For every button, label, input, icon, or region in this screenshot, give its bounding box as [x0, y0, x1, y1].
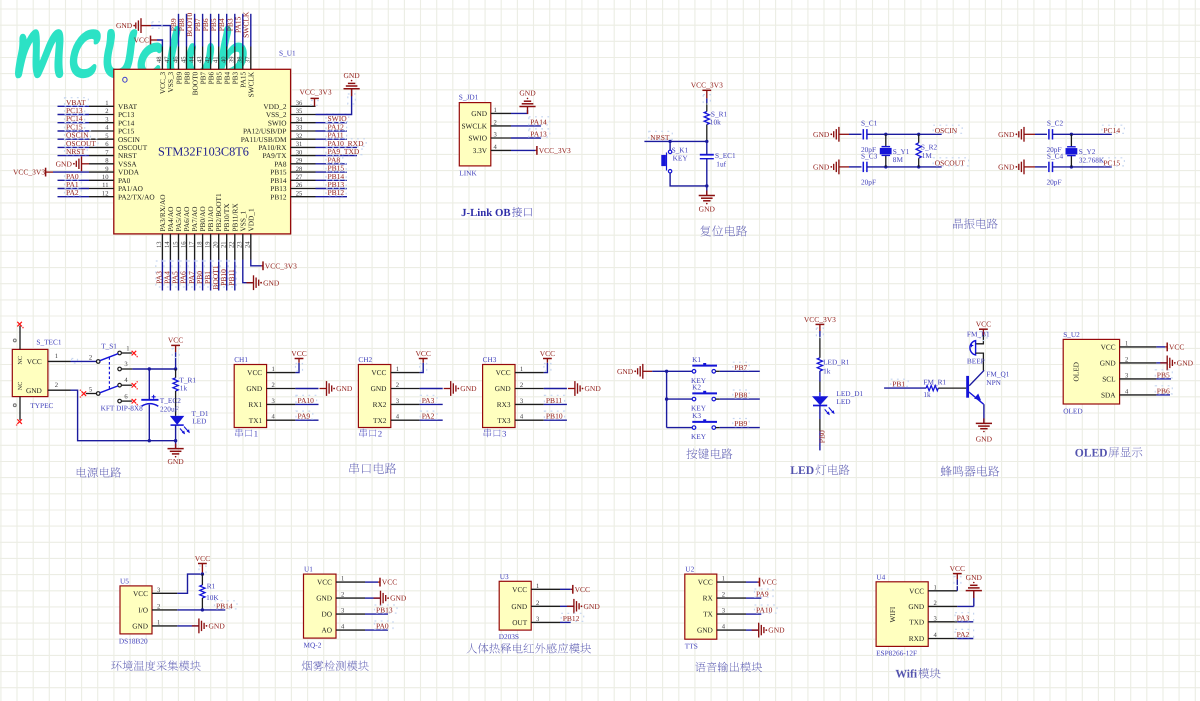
part name chuankou1: [235, 429, 252, 438]
wire net PB13: [316, 188, 348, 190]
svg-text:NRST: NRST: [650, 133, 670, 142]
wire OLED VCC: [1156, 346, 1165, 348]
svg-text:VCC: VCC: [247, 368, 262, 377]
svg-text:GND: GND: [167, 457, 184, 466]
wire net PC14: [58, 122, 90, 124]
svg-text:TX: TX: [703, 610, 713, 619]
svg-text:11: 11: [102, 182, 108, 189]
pin 24 VDD_1: [250, 234, 252, 260]
svg-text:RX: RX: [703, 594, 714, 603]
svg-text:GND: GND: [246, 384, 262, 393]
no-connect X pin1: [132, 351, 137, 356]
svg-text:2: 2: [396, 382, 399, 389]
pin 2 GND of CH2: [391, 388, 420, 390]
part name chuankou2: [360, 429, 377, 438]
svg-text:GND: GND: [998, 130, 1015, 139]
wire VCC down: [175, 345, 177, 352]
svg-text:1: 1: [1125, 340, 1128, 347]
title serial circuit: [349, 463, 396, 474]
node junction K2: [665, 397, 668, 400]
pin 1 VCC of CH1: [267, 372, 296, 374]
svg-text:2: 2: [722, 592, 725, 599]
wire net NRST: [58, 155, 90, 157]
ground GND at VSSA: [56, 156, 82, 171]
svg-text:K3: K3: [692, 411, 701, 420]
svg-text:2: 2: [89, 355, 92, 362]
svg-text:U2: U2: [685, 565, 694, 574]
pin 44 BOOT0: [194, 47, 196, 70]
svg-text:VCC: VCC: [133, 589, 148, 598]
resistor FM_R1 1k: [926, 386, 938, 391]
wire NRST to key: [669, 141, 671, 150]
svg-text:VCC: VCC: [291, 349, 306, 358]
pin 34 SWIO: [291, 122, 316, 124]
svg-text:VCC: VCC: [168, 336, 183, 345]
svg-text:LED: LED: [836, 397, 850, 406]
ground GND at U3: [567, 599, 600, 614]
ground GND at C3: [813, 160, 839, 175]
no-connect X pin6: [132, 399, 137, 404]
node junction bottom cap: [148, 439, 151, 442]
pin 4 SDA of S_U2: [1120, 394, 1157, 396]
power VCC at OLED: [1166, 343, 1168, 352]
svg-text:LED: LED: [790, 464, 814, 477]
svg-text:RX2: RX2: [373, 400, 387, 409]
svg-text:DS18B20: DS18B20: [119, 636, 148, 645]
wire net PA0: [365, 629, 388, 631]
wire VSSA pin8: [82, 163, 90, 165]
selection dashes LED stem: [816, 328, 823, 338]
no-connect X bottom: [17, 419, 22, 424]
decorative blue ellipse: [123, 77, 127, 82]
wire VCC to buzzer: [982, 329, 984, 335]
title key circuit: [686, 448, 732, 459]
wire CH3 GND: [544, 388, 567, 390]
title smoke module: [302, 661, 369, 671]
wire net PB12: [316, 196, 348, 198]
wire C2 to PC14: [1053, 133, 1112, 135]
svg-text:RXD: RXD: [909, 634, 924, 643]
pin 25 PB12: [291, 196, 316, 198]
gray dot bottom: [13, 404, 16, 407]
svg-text:VDD_1: VDD_1: [246, 208, 255, 231]
node junction rail top: [174, 367, 177, 370]
wire C1 to OSCIN: [867, 133, 942, 135]
wire LED to bottom: [175, 425, 177, 449]
svg-text:K2: K2: [692, 383, 701, 392]
title voice module: [695, 662, 762, 672]
wire U4 VCC up: [956, 579, 958, 591]
pin 15 PA5/AO: [178, 234, 180, 260]
wire U1 GND: [365, 597, 381, 599]
wire net PA1: [58, 188, 90, 190]
selection dashes VDD_2 stem: [311, 101, 318, 106]
pin 38 PA15: [242, 47, 244, 70]
wire net PA3: [161, 260, 163, 291]
svg-text:VCC: VCC: [1169, 343, 1184, 352]
svg-text:GND: GND: [511, 602, 527, 611]
wire net PB12: [560, 621, 571, 623]
svg-text:S_C4: S_C4: [1047, 152, 1064, 161]
pin 40 PB4: [226, 47, 228, 70]
capacitor S_C3 20pF: [862, 162, 864, 172]
no-connect X pin4: [132, 383, 137, 388]
svg-text:32: 32: [296, 133, 303, 140]
node junction cap branch: [148, 367, 151, 370]
wire CH1 GND: [295, 388, 318, 390]
svg-text:42: 42: [204, 56, 211, 63]
svg-text:NC: NC: [17, 382, 24, 391]
power VCC_3V3 at VDD_2: [311, 97, 319, 99]
pin 17 PA7/AO: [194, 234, 196, 260]
wire net PB11: [544, 403, 567, 405]
svg-text:GND: GND: [966, 573, 983, 582]
svg-text:26: 26: [296, 182, 303, 189]
pin 4 TX1 of CH1: [267, 419, 296, 421]
pin 2 PC13: [89, 114, 114, 116]
pin NC top of TEC1: [19, 326, 21, 350]
svg-text:1: 1: [396, 366, 399, 373]
svg-text:VCC: VCC: [382, 578, 397, 587]
svg-text:GND: GND: [263, 278, 280, 287]
svg-text:GND: GND: [56, 159, 73, 168]
power VCC buzzer: [979, 328, 988, 330]
svg-text:17: 17: [188, 241, 195, 248]
svg-text:27: 27: [296, 174, 303, 181]
wire CH1 VCC up: [295, 363, 299, 373]
selection dashes TEC VCC stem: [172, 349, 179, 358]
ground GND at VSS_1: [247, 275, 280, 290]
pin 30 PA9/TX: [291, 155, 316, 157]
wire net PA8: [316, 163, 348, 165]
wire K1 to net: [716, 370, 720, 372]
pin 27 PB14: [291, 179, 316, 181]
wire net PC15: [58, 130, 90, 132]
svg-text:TX2: TX2: [373, 416, 387, 425]
pin 2 SWCLK of S_JD1: [491, 125, 511, 127]
svg-text:20pF: 20pF: [861, 177, 876, 186]
svg-text:1k: 1k: [180, 384, 188, 393]
wire net PA14: [511, 125, 541, 127]
svg-text:VCC_3V3: VCC_3V3: [300, 88, 332, 97]
svg-text:VCC_3V3: VCC_3V3: [804, 315, 836, 324]
pin 3 TXD of U4: [928, 621, 957, 623]
svg-text:2: 2: [55, 382, 58, 389]
svg-text:T_S1: T_S1: [101, 341, 117, 350]
node junction NRST-key: [668, 140, 671, 143]
svg-text:S_C2: S_C2: [1047, 119, 1064, 128]
svg-text:OLED: OLED: [1075, 447, 1108, 460]
title power circuit: [77, 467, 121, 478]
selection dashes buzzer stem: [980, 332, 987, 341]
wire net PB6: [1156, 394, 1170, 396]
wire U1 VCC: [365, 581, 378, 583]
LED LED_D1: [812, 396, 828, 405]
wire net BOOT0: [194, 14, 196, 47]
svg-text:VCC: VCC: [134, 36, 149, 45]
wire net PB8: [186, 14, 188, 47]
svg-text:TX3: TX3: [497, 416, 511, 425]
wire bus to K2: [667, 398, 693, 400]
svg-text:SWIO: SWIO: [468, 134, 487, 143]
wire net PA2: [58, 196, 90, 198]
ground GND keys: [617, 364, 643, 379]
pin 31 PA10/RX: [291, 146, 316, 148]
svg-text:GND: GND: [1177, 359, 1194, 368]
power VCC_3V3 at VDD_1: [262, 261, 264, 270]
pin 2 GND of U1: [336, 597, 365, 599]
wire net PB7: [202, 14, 204, 47]
svg-text:VCC: VCC: [415, 349, 430, 358]
svg-text:D203S: D203S: [499, 632, 519, 641]
pin 10 PA0: [89, 179, 114, 181]
wire U2 VCC: [746, 581, 758, 583]
svg-text:GND: GND: [336, 384, 353, 393]
svg-text:16: 16: [180, 241, 187, 248]
svg-text:GND: GND: [495, 384, 511, 393]
svg-text:S_R2: S_R2: [921, 142, 938, 151]
pin 1 VCC of U4: [928, 590, 957, 592]
svg-text:GND: GND: [371, 384, 387, 393]
svg-text:U5: U5: [120, 577, 129, 586]
svg-text:GND: GND: [390, 594, 407, 603]
svg-text:1: 1: [55, 353, 58, 360]
wire net NRST: [644, 140, 706, 142]
capacitor T_EC2 220uF: [148, 369, 150, 400]
svg-text:NRST: NRST: [66, 147, 86, 156]
sensor U1 body: [304, 574, 337, 638]
pin 1 VCC of CH2: [391, 372, 420, 374]
ground GND at U4: [973, 591, 975, 598]
wire net PB14: [316, 179, 348, 181]
pin 20 PB2/BOOT1: [218, 234, 220, 260]
svg-text:220uF: 220uF: [160, 404, 179, 413]
svg-text:SWCLK: SWCLK: [461, 122, 487, 131]
ground GND reset: [706, 191, 708, 196]
svg-text:LED: LED: [192, 416, 206, 425]
wire net PA10_RXD: [316, 146, 358, 148]
svg-text:3.3V: 3.3V: [473, 146, 488, 155]
ground GND power: [175, 444, 177, 449]
power VCC_3V3 at VDDA: [45, 168, 47, 177]
wire LED_D1 to PB0: [819, 406, 821, 420]
svg-text:GND: GND: [132, 622, 148, 631]
wire VCC_3V3 to LED_R1: [819, 324, 821, 331]
svg-text:20pF: 20pF: [1047, 177, 1062, 186]
svg-text:SWCLK: SWCLK: [241, 11, 250, 38]
power VCC at CH3: [543, 358, 552, 360]
wire net VBAT: [58, 105, 90, 107]
node junction NRST-cap: [705, 140, 708, 143]
svg-text:MQ-2: MQ-2: [304, 641, 322, 650]
svg-text:41: 41: [213, 56, 220, 63]
pin 3 RX1 of CH1: [267, 403, 296, 405]
svg-text:2: 2: [272, 382, 275, 389]
svg-text:GND: GND: [697, 626, 713, 635]
svg-text:RX1: RX1: [248, 400, 262, 409]
wire net PA2 wifi: [957, 638, 973, 640]
pin 41 PB5: [218, 47, 220, 70]
wire net PB11: [234, 260, 236, 291]
pin 2 GND of CH1: [267, 388, 296, 390]
wire net PB10: [544, 419, 567, 421]
crystal S_Y2 32.768K: [1070, 134, 1072, 147]
power VCC at U4: [953, 573, 962, 575]
svg-text:DO: DO: [321, 610, 332, 619]
title temperature module: [111, 660, 201, 671]
svg-text:VCC: VCC: [27, 357, 42, 366]
crystal S_Y1 8M: [885, 134, 887, 146]
pin 1 VCC of CH3: [515, 372, 544, 374]
pin 18 PB0/AO: [202, 234, 204, 260]
svg-text:1: 1: [341, 576, 344, 583]
resistor T_R1 1K: [173, 378, 178, 391]
pin 23 VSS_1: [242, 234, 244, 260]
power VCC at U2: [759, 578, 761, 587]
resistor S_R2 1M: [918, 134, 920, 143]
svg-text:VCC: VCC: [950, 564, 965, 573]
wire net PA11: [316, 138, 348, 140]
wire net PB5: [1156, 378, 1171, 380]
svg-text:WIFI: WIFI: [888, 606, 897, 622]
svg-text:VCC: VCC: [496, 368, 511, 377]
pin 11 PA1/AO: [89, 188, 114, 190]
svg-text:VCC: VCC: [512, 585, 527, 594]
svg-text:PA2/TX/AO: PA2/TX/AO: [118, 192, 155, 201]
svg-text:VCC: VCC: [761, 578, 776, 587]
pin 47 VSS_3: [169, 47, 171, 70]
wire net PA7: [194, 260, 196, 291]
svg-text:FM_R1: FM_R1: [923, 378, 946, 387]
switch pin 1: [118, 351, 122, 355]
wire net PA15: [242, 14, 244, 47]
ground GND at CH3: [568, 381, 601, 396]
svg-text:GND: GND: [460, 384, 477, 393]
wire VDD_2 to VCC_3V3: [314, 98, 316, 106]
wire CH3 VCC up: [544, 363, 548, 373]
svg-text:28: 28: [296, 166, 303, 173]
svg-text:NPN: NPN: [986, 378, 1001, 387]
pin 12 PA2/TX/AO: [89, 196, 114, 198]
wire net PB5: [218, 14, 220, 47]
switch link dashed: [108, 357, 110, 388]
svg-text:S_JD1: S_JD1: [459, 92, 479, 101]
pin 29 PA8: [291, 163, 316, 165]
node junction R2 top: [917, 133, 920, 136]
svg-text:8M: 8M: [893, 155, 904, 164]
svg-text:CH2: CH2: [358, 355, 372, 364]
wire net PB10: [226, 260, 228, 291]
title crystal circuit: [953, 218, 998, 229]
svg-text:10k: 10k: [710, 117, 721, 126]
module U4 body: [876, 582, 928, 647]
pin 2 GND of U3: [531, 605, 560, 607]
wire net PB1: [884, 387, 926, 389]
wire U3 VCC: [560, 588, 571, 590]
svg-text:1: 1: [254, 429, 258, 439]
svg-text:2: 2: [536, 600, 539, 607]
svg-text:KEY: KEY: [673, 153, 689, 162]
ground GND at CH2: [444, 381, 477, 396]
wire R1 to NRST node: [706, 125, 708, 142]
wire OLED GND: [1156, 362, 1167, 364]
wire net PA3 wifi: [957, 621, 973, 623]
wire U3 GND: [560, 605, 574, 607]
transistor FM_Q1 NPN: [966, 376, 969, 398]
pin 19 PB1/AO: [210, 234, 212, 260]
svg-text:2: 2: [378, 429, 382, 439]
svg-text:35: 35: [296, 108, 303, 115]
pin 1 GND of U5: [152, 625, 177, 627]
ground GND at C2: [998, 127, 1024, 142]
pin 43 PB7: [202, 47, 204, 70]
wire net PA5: [178, 260, 180, 291]
selection dashes U4 stem: [954, 577, 961, 586]
connector CH3 body: [483, 365, 515, 428]
node junction cap-key: [705, 184, 708, 187]
svg-text:25: 25: [296, 190, 303, 197]
ground GND buzzer: [983, 418, 985, 423]
svg-text:1: 1: [126, 346, 129, 353]
power VCC at CH2: [419, 358, 428, 360]
svg-text:32.768K: 32.768K: [1079, 155, 1105, 164]
LED T_D1: [170, 416, 184, 425]
wire buzzer to Q1 collector: [976, 353, 984, 371]
svg-text:40: 40: [221, 56, 228, 63]
ground GND at U2: [752, 623, 785, 638]
buzzer FM_B1: [970, 341, 976, 355]
svg-text:1k: 1k: [923, 390, 931, 399]
svg-text:44: 44: [188, 56, 195, 63]
wire net PB15: [316, 171, 348, 173]
wire rail to R1: [175, 369, 177, 378]
svg-text:VCC: VCC: [909, 586, 924, 595]
node junction K1: [665, 370, 668, 373]
pin 9 VDDA: [89, 171, 114, 173]
pin 2 GND of CH3: [515, 388, 544, 390]
selection dashes U5 stem: [199, 566, 206, 574]
wire JD1 pin4 to VCC_3V3: [511, 149, 535, 151]
connector CH2 body: [358, 365, 390, 428]
svg-text:GND: GND: [519, 89, 536, 98]
power VCC at CH1: [295, 358, 304, 360]
svg-text:19: 19: [204, 241, 211, 248]
connector S_TEC1 body: [12, 349, 48, 396]
svg-text:VCC: VCC: [371, 368, 386, 377]
pin 4 GND of U2: [717, 629, 746, 631]
sensor U3 body: [499, 581, 531, 630]
wire VCC_3 pin48: [157, 40, 162, 47]
pin 2 GND of TEC1: [48, 389, 71, 391]
title buzzer circuit: [941, 466, 1000, 477]
wire net PC13: [58, 114, 90, 116]
svg-text:J-Link OB: J-Link OB: [461, 207, 511, 219]
svg-text:PB0: PB0: [818, 430, 827, 443]
svg-text:GND: GND: [908, 602, 924, 611]
wire net PB4: [226, 14, 228, 47]
svg-text:GND: GND: [343, 71, 360, 80]
wire net PA13: [511, 137, 541, 139]
wire net PA3: [420, 403, 443, 405]
svg-text:LED_R1: LED_R1: [823, 357, 850, 366]
pin 1 VCC of S_U2: [1120, 346, 1157, 348]
svg-text:1: 1: [536, 583, 539, 590]
power VCC at U3: [572, 585, 574, 594]
pin 1 VCC of U3: [531, 588, 560, 590]
pin 1 VCC of U1: [336, 581, 365, 583]
svg-text:I/O: I/O: [138, 606, 148, 615]
ground GND at C4: [998, 160, 1024, 175]
